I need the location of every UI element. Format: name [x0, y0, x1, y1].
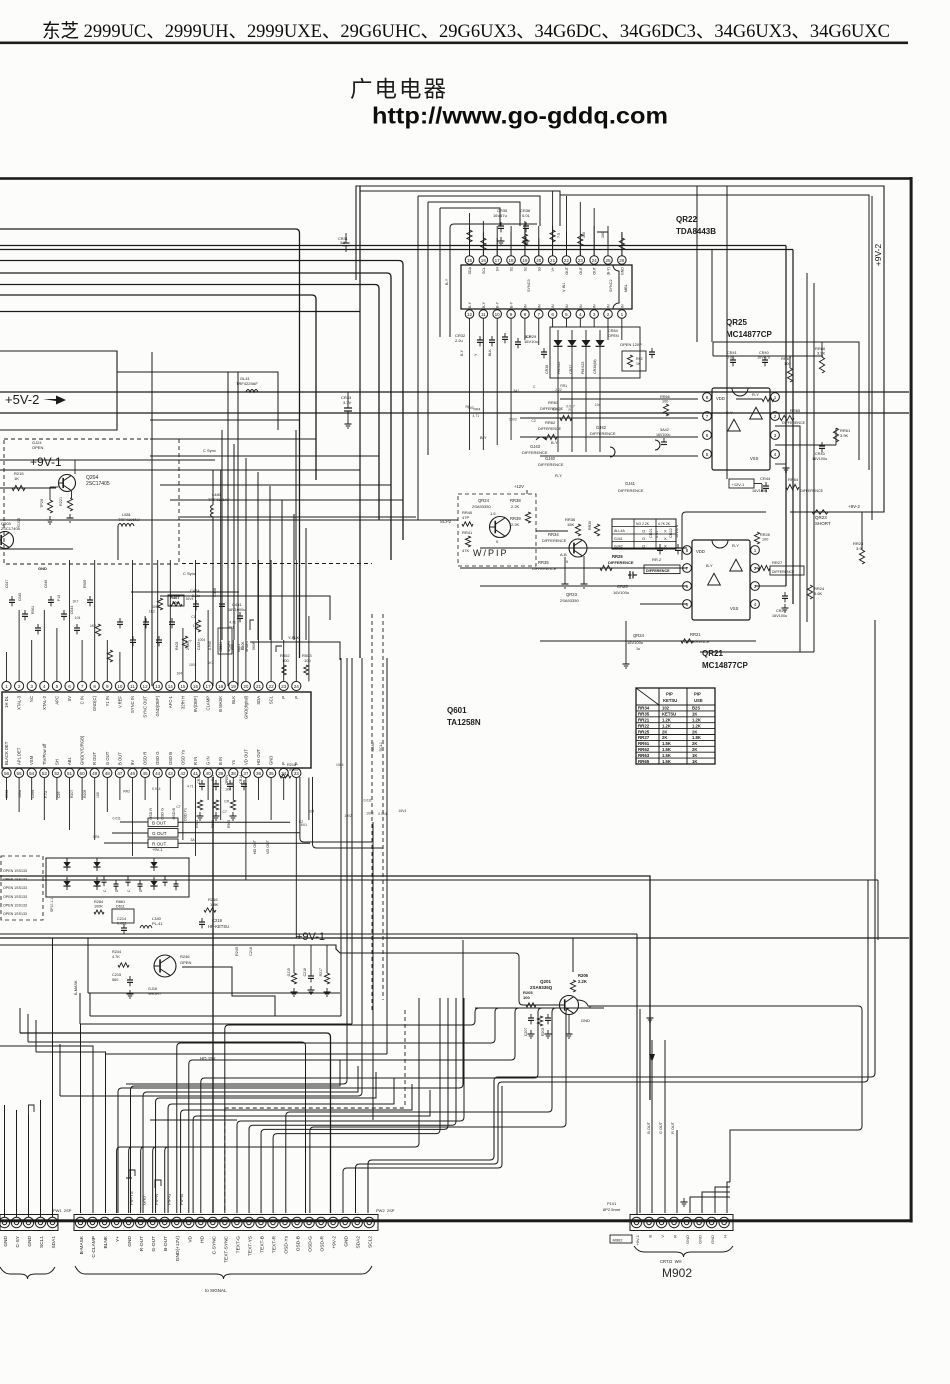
wire y-blk box [250, 642, 340, 660]
wire fan riser pin13 [475, 1008, 479, 1021]
svg-text:CR84: CR84 [608, 329, 618, 333]
svg-text:7.5: 7.5 [557, 233, 561, 238]
svg-text:V: V [660, 1235, 665, 1238]
wire fan riser pin10 [515, 1008, 519, 1056]
svg-text:3A42: 3A42 [660, 428, 669, 432]
IC QR22 pin bottom 12 [618, 310, 627, 319]
wire q trans net [88, 938, 340, 993]
svg-text:0.017: 0.017 [566, 404, 575, 408]
IC Q601 pin top 9 [103, 681, 112, 690]
svg-text:10: 10 [495, 312, 501, 317]
svg-text:RR34: RR34 [638, 706, 650, 711]
IC Q601 pin top 1 [2, 681, 11, 690]
svg-text:RR35: RR35 [538, 560, 549, 565]
IC Q601 pin top 16 [191, 681, 200, 690]
dashed wire v383 [382, 614, 384, 1000]
wire q601 dn 21 [258, 778, 260, 800]
svg-text:2SC17405: 2SC17405 [86, 481, 110, 487]
svg-text:OSD-G: OSD-G [308, 1236, 314, 1252]
IC QR22 body [461, 265, 632, 309]
wire scl out [313, 777, 384, 848]
svg-text:DIFFERENCE: DIFFERENCE [542, 539, 567, 543]
svg-text:RR27: RR27 [772, 560, 783, 565]
wire qr22 up 9 [593, 226, 595, 256]
wire vdrop right 3 [799, 426, 801, 652]
wire q601 dn 23 [283, 778, 285, 800]
svg-text:R1: R1 [465, 405, 469, 409]
svg-text:R203: R203 [541, 1028, 545, 1036]
svg-text:R OUT: R OUT [671, 1121, 675, 1133]
wire q601 up 18 [220, 470, 222, 681]
svg-text:GND: GND [269, 756, 274, 765]
wire q601 up 15 [182, 628, 184, 681]
svg-text:4.77: 4.77 [185, 640, 192, 644]
wire pw1 in 4 [40, 1100, 42, 1217]
diode D3 below qr22 [582, 340, 591, 346]
opamp QR21 a [708, 573, 721, 585]
svg-text:16V4: 16V4 [398, 809, 406, 813]
IC Q601 pin bottom 20 [241, 768, 250, 777]
wire pip feed 5 [193, 1090, 430, 1213]
svg-text:0.01: 0.01 [522, 213, 531, 218]
svg-text:IN: IN [523, 304, 527, 308]
wire bgr from q201 [664, 1040, 666, 1062]
svg-text:C-SYNC: C-SYNC [211, 1235, 217, 1254]
svg-text:GJ41: GJ41 [614, 537, 623, 541]
IC Q601 pin bottom 3 [27, 768, 36, 777]
svg-text:广电电器: 广电电器 [350, 77, 448, 102]
svg-text:CR43: CR43 [815, 452, 825, 456]
svg-text:B-Y: B-Y [460, 349, 464, 356]
IC QR22 pin bottom 5 [521, 310, 530, 319]
svg-text:24: 24 [592, 258, 598, 263]
svg-text:R245: R245 [235, 947, 239, 956]
dashed wire h1108 [225, 1107, 405, 1109]
svg-text:18: 18 [508, 258, 514, 263]
svg-text:4.71: 4.71 [187, 785, 194, 789]
wire drop pin1 [80, 1024, 82, 1213]
svg-text:QR24: QR24 [478, 498, 490, 503]
svg-text:GJ42: GJ42 [614, 545, 623, 549]
gnd p101 [683, 1198, 685, 1202]
IC Q601 pin top 12 [141, 681, 150, 690]
svg-text:GND: GND [685, 1235, 690, 1244]
wire vstair mid 7 [305, 528, 307, 640]
wire fan pin18 [286, 1108, 552, 1213]
wire right mid h1 [755, 585, 786, 587]
svg-text:B MASK: B MASK [218, 696, 223, 712]
wire q601 up 7 [81, 640, 83, 681]
svg-text:1002: 1002 [344, 814, 352, 818]
wire q601 up 21 [258, 560, 260, 681]
svg-text:1: 1 [774, 395, 777, 400]
wire drop pin2 [0, 1046, 93, 1213]
capacitor CR21 [657, 547, 663, 549]
svg-text:Q601: Q601 [447, 706, 467, 715]
svg-text:Thr/Pow off: Thr/Pow off [42, 743, 47, 765]
svg-text:D611: D611 [116, 905, 125, 909]
connector PW2 box [74, 1215, 378, 1231]
wire c sync [212, 560, 214, 686]
wire fan pin10 [189, 1056, 515, 1213]
svg-text:DIFFERENCE: DIFFERENCE [772, 570, 795, 574]
svg-text:16V2: 16V2 [509, 418, 517, 422]
wire fan pin11 [201, 1074, 538, 1213]
IC QR22 pin bottom 3 [493, 310, 502, 319]
IC QR22 pin top 11 [604, 256, 613, 265]
svg-text:RR41: RR41 [462, 530, 473, 535]
dashed wire h563 [182, 563, 372, 565]
svg-text:11: 11 [130, 684, 135, 689]
svg-text:3A1: 3A1 [513, 389, 519, 393]
resistor cluster a3 [195, 620, 200, 632]
resistor RR66 [819, 357, 824, 373]
svg-text:7: 7 [706, 414, 709, 419]
wire drop x428 [427, 202, 429, 455]
svg-text:P13: P13 [57, 595, 61, 601]
svg-text:C2: C2 [531, 419, 535, 423]
wire rr23 [861, 512, 863, 550]
svg-text:24: 24 [294, 684, 300, 689]
svg-text:CR21: CR21 [649, 528, 653, 538]
wire qr22 up 2 [496, 238, 498, 256]
wire q204 collector [74, 460, 76, 474]
svg-text:IN: IN [620, 304, 624, 308]
svg-text:104: 104 [595, 403, 601, 407]
svg-text:5.6K: 5.6K [814, 591, 823, 596]
svg-text:1K4: 1K4 [225, 787, 231, 791]
wire q2xx emitter [182, 967, 275, 1016]
wire bus3 drop [792, 250, 794, 605]
wire drop x238 [237, 372, 239, 686]
wire q601 dn 16 [195, 778, 197, 856]
IC Q601 pin top 20 [241, 681, 250, 690]
wire q601 up 8 [94, 560, 96, 681]
IC Q601 pin bottom 18 [216, 768, 225, 777]
svg-text:25: 25 [605, 258, 611, 263]
wire q601 dn 3 [31, 778, 33, 800]
IC Q601 pin top 22 [267, 681, 276, 690]
svg-text:1.8K: 1.8K [692, 735, 701, 740]
wire qr22 bus top2 [418, 196, 540, 226]
resistor QR23 SHORT [812, 510, 828, 514]
svg-text:GND: GND [3, 1235, 9, 1246]
svg-text:GND(DEF): GND(DEF) [155, 695, 160, 716]
wire qr22 up 8 [579, 238, 581, 256]
svg-text:1K: 1K [692, 712, 697, 717]
wire q601 dn 24 [295, 778, 297, 938]
svg-text:C594: C594 [31, 790, 35, 798]
IC Q601 pin bottom 13 [153, 768, 162, 777]
svg-text:0.001: 0.001 [117, 922, 127, 926]
svg-text:100: 100 [601, 232, 605, 238]
IC Q601 pin top 10 [115, 681, 124, 690]
title underline rule [0, 42, 908, 45]
svg-text:SYNC2: SYNC2 [609, 279, 613, 292]
opamp QR25 b [750, 407, 763, 419]
svg-text:SDA2: SDA2 [356, 1236, 362, 1249]
svg-text:GJ15: GJ15 [287, 968, 291, 976]
svg-text:9: 9 [510, 312, 513, 317]
svg-text:OUT: OUT [579, 266, 583, 274]
svg-text:3: 3 [593, 312, 596, 317]
IC QR22 pin bottom 6 [534, 310, 543, 319]
wire q601 up 1 [6, 652, 8, 681]
wire fan riser pin20 [566, 1008, 570, 1123]
svg-text:B-OUT: B-OUT [163, 1236, 169, 1251]
wire rail y413 [0, 412, 909, 414]
svg-text:2.2K: 2.2K [511, 522, 520, 527]
svg-text:APC: APC [54, 696, 59, 705]
wire fan pin13 [225, 1021, 475, 1213]
svg-text:100: 100 [523, 995, 530, 1000]
svg-text:OPEN: OPEN [225, 774, 229, 784]
svg-text:RR64: RR64 [788, 477, 799, 482]
svg-text:HD: HD [199, 1235, 205, 1242]
svg-text:47: 47 [117, 771, 123, 776]
svg-text:HD OUT: HD OUT [253, 839, 257, 854]
svg-text:DIFFERENCE: DIFFERENCE [538, 427, 562, 431]
IC Q601 pin bottom 11 [128, 768, 137, 777]
svg-text:OSD-R: OSD-R [320, 1235, 326, 1251]
svg-text:39: 39 [218, 771, 224, 776]
wire fan riser pin11 [538, 1008, 542, 1074]
capacitor row under q601 [199, 783, 205, 785]
resistor cluster a0 [95, 624, 100, 636]
qr22 lower box [550, 327, 640, 378]
svg-text:C644: C644 [70, 606, 74, 614]
IC QR22 pin top 5 [521, 256, 530, 265]
wire st h1033 pin21 [20, 1033, 331, 1213]
svg-text:1K2: 1K2 [90, 624, 96, 628]
svg-text:8P2.5mm: 8P2.5mm [603, 1207, 621, 1212]
resistor RR66b [663, 404, 668, 416]
svg-text:16: 16 [481, 258, 487, 263]
svg-text:1: 1 [621, 312, 624, 317]
wire bus7 [0, 295, 316, 480]
svg-text:TEXT-YS: TEXT-YS [247, 1236, 253, 1256]
IC QR25 body [712, 388, 770, 470]
IC QR21 pin 8 [683, 546, 692, 555]
svg-text:SDA1: SDA1 [51, 1236, 57, 1249]
resistor above qr22 3 [550, 230, 555, 242]
svg-text:23: 23 [281, 684, 287, 689]
wire q601 dn 11 [132, 778, 134, 856]
IC QR22 pin top 10 [590, 256, 599, 265]
IC Q601 pin top 7 [78, 681, 87, 690]
wire st lfeeds [19, 1008, 21, 1033]
svg-text:C7: C7 [176, 805, 180, 809]
svg-text:SDA: SDA [468, 266, 472, 274]
svg-text:IN: IN [593, 304, 597, 308]
svg-text:S2: S2 [523, 267, 527, 271]
wire PIP comb drop 2 [141, 1147, 145, 1213]
svg-text:101: 101 [193, 624, 199, 628]
wire q601 up 11 [132, 560, 134, 681]
IC Q601 pin bottom 2 [15, 768, 24, 777]
wire 9v1 rail [0, 459, 215, 461]
svg-text:TA1258N: TA1258N [447, 718, 481, 727]
svg-text:HP-KETSU: HP-KETSU [208, 924, 229, 929]
transistor QR24 [490, 517, 511, 538]
svg-text:R-Y: R-Y [555, 473, 562, 478]
svg-text:R244: R244 [112, 950, 121, 954]
svg-text:47P: 47P [462, 515, 469, 520]
svg-text:R284: R284 [94, 900, 103, 904]
svg-text:USE: USE [694, 698, 703, 703]
resistor RR23 [859, 550, 864, 564]
IC QR22 pin top 3 [493, 256, 502, 265]
svg-text:PIP: PIP [666, 692, 673, 697]
IC QR22 pin bottom 10 [590, 310, 599, 319]
wire q601 up 25 [308, 616, 310, 681]
wire qr21 p5 [640, 603, 687, 605]
wire q601 dn 17 [207, 778, 209, 800]
svg-text:R-Y: R-Y [752, 392, 759, 397]
svg-text:OPEN 1SS133: OPEN 1SS133 [3, 903, 27, 907]
wire q601 dn 2 [18, 778, 20, 812]
wire riser 373 [372, 822, 374, 1120]
wire q601 up 6 [69, 560, 71, 681]
svg-text:3A1: 3A1 [228, 626, 234, 630]
wire pw1 v5 [52, 1125, 54, 1217]
wire qr22 right hook [597, 232, 608, 244]
wire st h1096 riser362 [60, 658, 362, 1096]
wire p101 bend group [690, 1182, 730, 1213]
svg-text:IN: IN [565, 304, 569, 308]
connector P101 pins [631, 1217, 641, 1227]
dashed wire v372 [371, 614, 373, 1010]
wire scp2 [0, 519, 458, 521]
IC Q601 pin bottom 12 [141, 768, 150, 777]
wire qr25 in2 [560, 398, 698, 400]
svg-text:GND(C): GND(C) [92, 695, 97, 711]
svg-text:DIFFERENCE: DIFFERENCE [618, 488, 644, 493]
svg-text:ABL: ABL [67, 756, 72, 765]
resistor R407 [170, 602, 182, 606]
IC QR21 pin 1 [751, 546, 760, 555]
svg-text:RR63: RR63 [638, 753, 650, 758]
wire q601 dn 12 [144, 778, 146, 800]
svg-text:16V4: 16V4 [185, 597, 193, 601]
IC QR25 pin 1 [771, 393, 780, 402]
IC Q601 pin top 6 [65, 681, 74, 690]
wire rail y945 [0, 945, 340, 953]
wire p101 in3 [664, 1060, 666, 1213]
resistor cluster a2 [182, 636, 187, 648]
svg-text:100: 100 [96, 792, 100, 798]
svg-text:100: 100 [762, 538, 768, 542]
wire +5V-2 arrow [43, 396, 66, 405]
svg-text:X: X [664, 544, 667, 549]
IC Q601 pin top 3 [27, 681, 36, 690]
wire fan pin20 [310, 1123, 566, 1213]
IC QR22 pin top 2 [479, 256, 488, 265]
svg-text:CR22: CR22 [669, 528, 673, 538]
wire nested pin17 [273, 998, 440, 1213]
svg-text:IN: IN [607, 304, 611, 308]
IC QR22 pin bottom 11 [604, 310, 613, 319]
svg-text:GJ15: GJ15 [17, 518, 21, 527]
wire pw1 v1 [4, 1105, 6, 1217]
svg-text:1.2K: 1.2K [692, 723, 701, 728]
label R OUT [148, 839, 178, 848]
wire vdrop right 4 [806, 273, 808, 622]
svg-text:12: 12 [467, 312, 473, 317]
svg-text:5: 5 [565, 312, 568, 317]
svg-text:C-CLAMP: C-CLAMP [91, 1236, 97, 1258]
svg-text:0.014: 0.014 [378, 812, 387, 816]
svg-text:X: X [664, 536, 667, 541]
diode D1 below qr22 [554, 340, 563, 346]
IC QR25 pin 7 [703, 412, 712, 421]
IC QR25 pin 6 [703, 431, 712, 440]
wire st h1016 [90, 1015, 341, 1017]
svg-text:B OUT: B OUT [152, 820, 166, 825]
wire stair branch 3 [0, 469, 360, 471]
wire qr21 in top [480, 547, 687, 549]
wire q601 up 4 [43, 610, 45, 681]
wire q601 dn 20 [245, 778, 247, 880]
svg-text:GJ16: GJ16 [148, 987, 157, 991]
svg-text:RR27: RR27 [638, 735, 650, 740]
svg-text:2K: 2K [692, 741, 697, 746]
wire st h1042 pin19 [28, 1042, 306, 1213]
svg-text:MC14877CP: MC14877CP [702, 661, 748, 670]
svg-text:DIFFERENCE: DIFFERENCE [800, 489, 824, 493]
wire bus5 [0, 273, 391, 560]
capacitor CR43 [819, 445, 825, 447]
capacitor QR25 c1 [730, 359, 736, 361]
wire corner 1082 [356, 880, 869, 1213]
svg-text:H: H [723, 1235, 728, 1238]
gnd q204 [71, 491, 73, 498]
wire pw1 in 3 [28, 1150, 30, 1217]
svg-text:(B-Y): (B-Y) [607, 267, 611, 275]
svg-text:0.943: 0.943 [208, 641, 212, 650]
wire rail y873 [0, 876, 650, 1100]
svg-text:C29: C29 [57, 792, 61, 798]
svg-text:RR28: RR28 [760, 533, 770, 537]
table PIP settings [636, 688, 715, 764]
resistor above qr22 5 [619, 238, 624, 250]
svg-text:QR25: QR25 [726, 318, 747, 327]
wire pip hook [155, 1180, 161, 1188]
wire q601 up 23 [283, 640, 285, 681]
wire nested pin16 [261, 998, 448, 1213]
wire q204 base [0, 487, 56, 489]
IC QR25 pin 4 [771, 450, 780, 459]
svg-text:53: 53 [42, 771, 48, 776]
IC QR25 pin 8 [703, 393, 712, 402]
svg-text:XTAL-2: XTAL-2 [42, 695, 47, 710]
resistor RR65 [780, 415, 794, 420]
wire gnd hook pin6 [129, 1170, 135, 1178]
IC Q601 pin top 4 [40, 681, 49, 690]
svg-text:C Sync: C Sync [203, 448, 216, 453]
svg-text:C215: C215 [112, 973, 121, 977]
wire vstair mid 0 [221, 430, 223, 640]
svg-text:OPEN 1SS133: OPEN 1SS133 [3, 886, 27, 890]
wire q201 right [577, 1000, 590, 1006]
svg-text:C207: C207 [524, 1028, 528, 1036]
wire qr25 in5 [540, 455, 698, 457]
svg-text:OPEN 1SS133: OPEN 1SS133 [3, 912, 27, 916]
capacitor CR22 [675, 547, 681, 549]
wire hook 624 [250, 620, 254, 630]
svg-text:CR4: CR4 [93, 835, 100, 839]
svg-text:IN: IN [537, 304, 541, 308]
